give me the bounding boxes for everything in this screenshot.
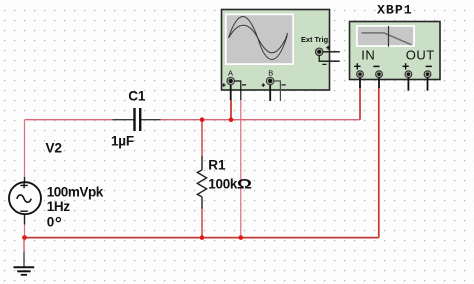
plus sign B [262, 83, 266, 87]
scope waveform trace small [229, 25, 287, 53]
svg-text:C1: C1 [128, 88, 146, 103]
wire: Bode IN- vertical [378, 88, 380, 238]
wire: R1 top from top rail [201, 120, 203, 158]
svg-text:Ext Trig.: Ext Trig. [301, 35, 330, 44]
svg-text:XBP1: XBP1 [377, 3, 413, 18]
pin Ext Trig minus stub [319, 55, 340, 61]
resistor R1 [197, 157, 206, 209]
terminal IN+ [357, 71, 364, 78]
svg-text:A: A [228, 68, 233, 77]
junction node scope A+ on top rail [229, 117, 234, 122]
pin Ext Trig plus stub [323, 51, 340, 53]
wire: Bode IN+ vertical [359, 88, 361, 120]
bode plotter XBP1 body [350, 22, 441, 80]
plus sign IN+ [354, 63, 360, 69]
wire: scope A+ drop to top rail [230, 100, 232, 120]
terminal OUT- [424, 71, 431, 78]
junction node V2/ground on bottom rail [22, 235, 27, 240]
minus sign IN- [373, 65, 379, 67]
oscilloscope XSC1 body [222, 10, 330, 91]
svg-text:R1: R1 [208, 157, 226, 172]
pin B minus stub [274, 81, 280, 101]
terminal OUT+ [405, 71, 412, 78]
svg-text:100k: 100k [208, 176, 238, 191]
pin IN+ [359, 78, 361, 88]
svg-text:100mVpk: 100mVpk [47, 185, 104, 200]
svg-text:1µF: 1µF [111, 134, 134, 149]
scope waveform trace big [229, 17, 288, 60]
ground [14, 238, 35, 275]
minus sign B [282, 84, 286, 86]
terminal IN- [376, 71, 383, 78]
plus sign A [222, 83, 226, 87]
wire: V2 bottom to ground rail [24, 224, 26, 238]
pin OUT- [427, 78, 429, 91]
wire: V2 plus vertical [24, 120, 26, 178]
svg-text:OUT: OUT [406, 48, 435, 63]
wire: R1 bottom to ground rail [201, 208, 203, 238]
svg-text:Ω: Ω [237, 176, 252, 192]
source V2 [9, 177, 41, 225]
terminal A [227, 77, 235, 85]
pin B plus [269, 85, 271, 101]
pin A plus [230, 85, 232, 100]
wire: scope A- drop to ground rail [240, 100, 242, 238]
svg-text:0: 0 [47, 214, 55, 229]
wire top net: V2 plus to C1 left lead [25, 119, 113, 121]
pin OUT+ [407, 78, 409, 91]
terminal Ext Trig [315, 48, 323, 56]
bode cursor [388, 26, 390, 47]
junction node R1 bottom [200, 235, 205, 240]
capacitor C1 [113, 108, 161, 131]
junction node R1 top [200, 117, 205, 122]
terminal B [266, 77, 274, 85]
wire bottom net: ground rail [25, 237, 379, 239]
svg-text:B: B [268, 68, 273, 77]
minus sign A [242, 84, 246, 86]
svg-text:V2: V2 [46, 140, 63, 155]
wire top net: C1 right lead to Bode IN+ drop [161, 119, 360, 121]
svg-text:1Hz: 1Hz [47, 199, 71, 214]
pin IN- [378, 78, 380, 88]
minus sign Ext Trig [322, 63, 326, 65]
junction node scope A- on bottom rail [239, 235, 244, 240]
svg-text:IN: IN [361, 48, 375, 63]
plus sign OUT+ [403, 63, 409, 69]
minus sign OUT- [426, 65, 432, 67]
bode trace [362, 33, 412, 45]
pin A minus stub [235, 81, 241, 100]
plus sign Ext Trig [326, 46, 330, 50]
